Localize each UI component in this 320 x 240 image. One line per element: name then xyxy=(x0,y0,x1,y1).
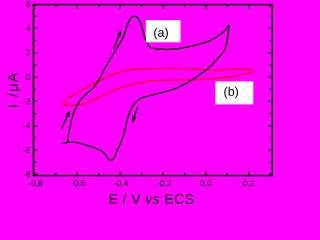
curve (a) black CV loop xyxy=(61,16,229,160)
svg-text:4: 4 xyxy=(26,23,31,33)
cusp knob xyxy=(227,25,230,28)
svg-text:(a): (a) xyxy=(153,26,168,40)
svg-text:2: 2 xyxy=(26,48,31,58)
curve (b) red CV loop xyxy=(63,68,252,106)
y-axis major ticks left xyxy=(34,5,39,175)
svg-text:E / V vs ECS: E / V vs ECS xyxy=(109,191,195,207)
svg-text:I /μA: I /μA xyxy=(4,71,20,108)
x tick labels xyxy=(28,178,255,188)
svg-text:0,0: 0,0 xyxy=(200,178,212,188)
y tick labels xyxy=(23,0,31,179)
svg-text:0,2: 0,2 xyxy=(243,178,255,188)
svg-text:(b): (b) xyxy=(224,85,239,99)
svg-text:6: 6 xyxy=(26,0,31,9)
arrow on rising branch xyxy=(114,30,121,49)
label box (b) xyxy=(215,81,253,104)
svg-text:-0,2: -0,2 xyxy=(157,178,172,188)
arrow on left flank xyxy=(61,111,70,130)
y-axis major ticks right xyxy=(268,28,273,150)
svg-text:-0,4: -0,4 xyxy=(114,178,129,188)
svg-text:-8: -8 xyxy=(23,169,31,179)
x-axis major ticks top xyxy=(35,5,249,10)
svg-text:-6: -6 xyxy=(23,145,31,155)
svg-text:-2: -2 xyxy=(23,96,31,106)
x-axis minor ticks bottom xyxy=(56,173,270,176)
x-axis minor ticks top xyxy=(56,5,270,8)
svg-text:-0,8: -0,8 xyxy=(28,178,43,188)
y-axis minor ticks right xyxy=(270,16,273,162)
arrow on reverse branch xyxy=(132,108,137,123)
x-axis major ticks bottom xyxy=(35,171,249,176)
svg-text:-0,6: -0,6 xyxy=(71,178,86,188)
plot frame xyxy=(34,5,273,176)
svg-text:0: 0 xyxy=(26,72,31,82)
svg-text:-4: -4 xyxy=(23,121,31,131)
y-axis minor ticks left xyxy=(34,16,37,162)
label box (a) xyxy=(146,20,181,42)
